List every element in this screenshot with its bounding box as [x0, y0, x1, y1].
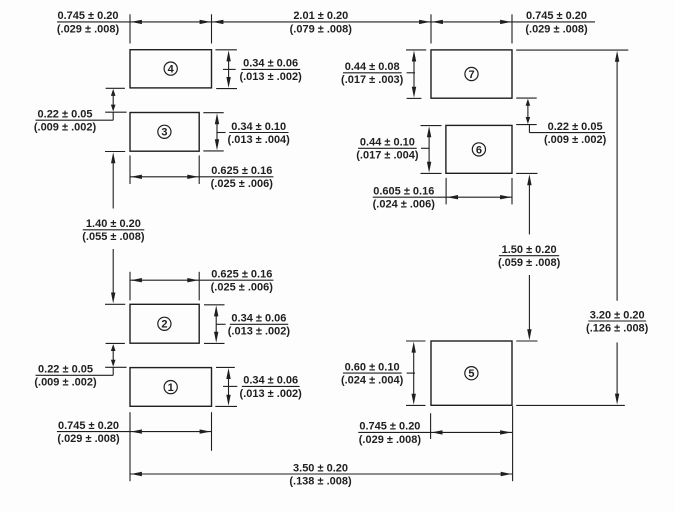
- arrows dim 0.745 top-right: [432, 20, 511, 24]
- dim 0.605 below pad6: [373, 178, 512, 211]
- svg-text:3.50 ± 0.20: 3.50 ± 0.20: [293, 462, 348, 474]
- svg-text:4: 4: [168, 64, 175, 76]
- svg-text:0.34 ± 0.06: 0.34 ± 0.06: [243, 58, 298, 70]
- dim 3.50 bottom: [130, 406, 513, 487]
- svg-text:6: 6: [476, 144, 482, 156]
- extension line pad4 right top: [211, 14, 213, 43]
- svg-text:(.059 ± .008): (.059 ± .008): [498, 257, 561, 269]
- arrows dim 0.745 top-left: [131, 20, 211, 24]
- pad 7: [431, 50, 512, 98]
- svg-text:7: 7: [468, 69, 474, 81]
- svg-text:1.40 ± 0.20: 1.40 ± 0.20: [86, 218, 141, 230]
- svg-text:(.013 ± .002): (.013 ± .002): [239, 71, 302, 83]
- label 2.01 top-center: [290, 10, 353, 35]
- svg-text:(.013 ± .002): (.013 ± .002): [240, 388, 303, 400]
- svg-text:0.22 ± 0.05: 0.22 ± 0.05: [548, 121, 603, 133]
- dim 0.22 left lower: [34, 343, 126, 388]
- dim 0.625 above pad2: [130, 269, 273, 301]
- svg-text:(.009 ± .002): (.009 ± .002): [544, 134, 607, 146]
- dim 0.34 right of pad1: [215, 367, 302, 406]
- pad 6: [446, 125, 512, 173]
- svg-text:(.029 ± .008): (.029 ± .008): [525, 23, 588, 35]
- dim 0.745 bottom-left: [57, 412, 212, 451]
- svg-text:(.025 ± .006): (.025 ± .006): [211, 282, 274, 294]
- svg-text:0.745 ± 0.20: 0.745 ± 0.20: [57, 10, 118, 22]
- arrows dim 2.01 top-center: [212, 20, 430, 24]
- svg-text:(.126 ± .008): (.126 ± .008): [586, 322, 649, 334]
- svg-text:(.029 ± .008): (.029 ± .008): [57, 23, 120, 35]
- dim 0.34 right of pad4: [215, 50, 302, 89]
- pad 1: [130, 368, 212, 407]
- dim 0.44 left of pad6: [356, 126, 441, 174]
- dim 0.22 right: [516, 98, 606, 146]
- dim 0.745 below pad5: [358, 413, 512, 446]
- svg-text:0.34 ± 0.10: 0.34 ± 0.10: [231, 121, 286, 133]
- svg-text:0.34 ± 0.06: 0.34 ± 0.06: [243, 375, 298, 387]
- extension line pad4 left top: [129, 14, 131, 43]
- svg-text:(.013 ± .004): (.013 ± .004): [228, 134, 291, 146]
- svg-text:0.22 ± 0.05: 0.22 ± 0.05: [38, 364, 93, 376]
- dim 1.50 right: [498, 173, 561, 341]
- svg-text:(.079 ± .008): (.079 ± .008): [290, 23, 353, 35]
- svg-text:(.055 ± .008): (.055 ± .008): [82, 231, 145, 243]
- dim 3.20 right: [516, 50, 648, 405]
- svg-text:(.017 ± .004): (.017 ± .004): [356, 150, 419, 162]
- svg-text:(.013 ± .002): (.013 ± .002): [228, 326, 291, 338]
- svg-text:3.20 ± 0.20: 3.20 ± 0.20: [590, 309, 645, 321]
- dim 0.625 below pad3: [130, 155, 273, 190]
- dim 0.44 left of pad7: [341, 50, 426, 99]
- svg-text:0.625 ± 0.16: 0.625 ± 0.16: [211, 269, 272, 281]
- svg-text:0.625 ± 0.16: 0.625 ± 0.16: [211, 165, 272, 177]
- svg-text:(.029 ± .008): (.029 ± .008): [359, 434, 422, 446]
- svg-text:(.024 ± .006): (.024 ± .006): [373, 199, 436, 211]
- svg-text:(.138 ± .008): (.138 ± .008): [289, 475, 352, 487]
- dimension line top row: [57, 21, 595, 23]
- label 0.745 top-right: [525, 10, 588, 35]
- pad 2: [130, 304, 199, 343]
- svg-text:2.01 ± 0.20: 2.01 ± 0.20: [293, 10, 348, 22]
- svg-text:(.009 ± .002): (.009 ± .002): [34, 377, 97, 389]
- dim 0.34 right of pad3: [203, 113, 290, 151]
- svg-text:0.605 ± 0.16: 0.605 ± 0.16: [373, 186, 434, 198]
- svg-text:1.50 ± 0.20: 1.50 ± 0.20: [502, 244, 557, 256]
- svg-text:2: 2: [161, 319, 167, 331]
- extension line pad7 left top: [430, 14, 432, 43]
- svg-text:0.44 ± 0.10: 0.44 ± 0.10: [360, 137, 415, 149]
- svg-text:0.745 ± 0.20: 0.745 ± 0.20: [58, 420, 119, 432]
- svg-text:(.009 ± .002): (.009 ± .002): [34, 122, 97, 134]
- svg-text:(.024 ± .004): (.024 ± .004): [341, 375, 404, 387]
- svg-text:0.745 ± 0.20: 0.745 ± 0.20: [526, 10, 587, 22]
- dim 0.22 left upper: [34, 88, 127, 133]
- svg-text:0.44 ± 0.08: 0.44 ± 0.08: [345, 61, 400, 73]
- svg-text:(.017 ± .003): (.017 ± .003): [341, 74, 404, 86]
- svg-text:(.029 ± .008): (.029 ± .008): [57, 433, 120, 445]
- pad 3: [130, 113, 199, 152]
- pad 5: [431, 341, 512, 405]
- svg-text:0.22 ± 0.05: 0.22 ± 0.05: [38, 109, 93, 121]
- dim 1.40 left: [82, 152, 145, 305]
- dim 0.60 left of pad5: [341, 341, 426, 405]
- extension line pad7 right top: [511, 14, 513, 43]
- label 0.745 top-left: [57, 10, 120, 35]
- dim 0.34 right of pad2: [204, 305, 290, 344]
- pad 4: [130, 50, 212, 88]
- svg-text:(.025 ± .006): (.025 ± .006): [211, 178, 274, 190]
- svg-text:1: 1: [168, 382, 174, 394]
- svg-text:0.745 ± 0.20: 0.745 ± 0.20: [359, 421, 420, 433]
- svg-text:5: 5: [468, 368, 474, 380]
- svg-text:0.34 ± 0.06: 0.34 ± 0.06: [231, 313, 286, 325]
- svg-text:3: 3: [161, 127, 167, 139]
- svg-text:0.60 ± 0.10: 0.60 ± 0.10: [345, 361, 400, 373]
